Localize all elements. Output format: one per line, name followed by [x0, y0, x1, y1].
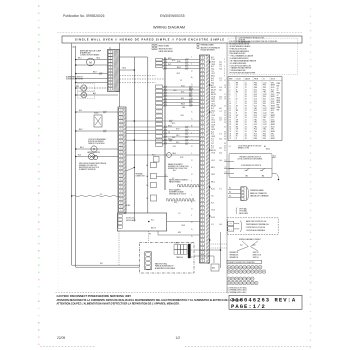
rail x147: [147, 57, 149, 213]
lamp 1 dashed enclosure: [78, 84, 95, 92]
svg-text:P8-6: P8-6: [254, 138, 257, 140]
svg-text:P1-3: P1-3: [254, 133, 257, 135]
svg-text:Y: Y: [236, 96, 237, 98]
svg-text:BK-4: BK-4: [97, 58, 101, 60]
svg-text:B-4: B-4: [220, 224, 222, 226]
svg-text:TO: TO: [263, 78, 265, 80]
wire y235: [158, 231, 200, 235]
svg-text:ELEMENTO SUPERIOR: ELEMENTO SUPERIOR: [79, 169, 96, 171]
svg-text:OR-2: OR-2: [176, 135, 180, 137]
svg-text:Publication No. 5995526026: Publication No. 5995526026: [63, 14, 105, 18]
svg-text:P8-6: P8-6: [254, 85, 257, 87]
svg-text:BK/W: BK/W: [271, 115, 275, 117]
svg-text:OR-8: OR-8: [172, 137, 176, 139]
wire table box: [228, 77, 282, 141]
dashed wires under P8: [120, 76, 166, 83]
svg-text:B-4: B-4: [220, 160, 222, 162]
connector J1 hatch: [206, 56, 209, 264]
svg-text:12: 12: [245, 87, 247, 89]
oven lamp 2: [76, 92, 118, 98]
svg-text:16: 16: [245, 94, 247, 96]
svg-text:SP-1: SP-1: [271, 133, 274, 135]
svg-text:P9-4: P9-4: [263, 136, 266, 138]
svg-text:BK/W: BK/W: [271, 85, 275, 87]
wire y73.5: [76, 72, 108, 75]
svg-text:Y: Y: [236, 103, 237, 105]
svg-text:W-19: W-19: [189, 101, 193, 103]
wire P8 to dot: [120, 69, 135, 71]
svg-text:16: 16: [245, 115, 247, 117]
svg-text:13: 13: [230, 110, 232, 112]
title bar right note: [239, 37, 265, 44]
svg-text:GY: GY: [236, 85, 238, 87]
svg-text:18: 18: [245, 85, 247, 87]
svg-text:BK-15: BK-15: [177, 67, 181, 69]
svg-text:OR: OR: [236, 119, 238, 121]
svg-text:K1-2: K1-2: [254, 124, 257, 126]
svg-text:B2: B2: [147, 198, 149, 200]
svg-text:MOTEUR DE VERROU: MOTEUR DE VERROU: [88, 141, 104, 143]
relay board top edge: [120, 56, 148, 58]
svg-text:18: 18: [245, 99, 247, 101]
svg-text:W-15: W-15: [271, 103, 275, 105]
svg-text:ATENCION:DESCONECTE LA CORRIEN: ATENCION:DESCONECTE LA CORRIENTE ANTES D…: [57, 299, 243, 302]
legend relay board: [152, 44, 173, 53]
svg-text:BK-22: BK-22: [189, 88, 193, 90]
svg-text:ELEMENTO DE CONVECCION: ELEMENTO DE CONVECCION: [168, 166, 188, 168]
wire door lock motor: [76, 148, 118, 150]
svg-text:BK-31: BK-31: [168, 125, 172, 127]
bake element note: [169, 179, 189, 184]
svg-text:24: 24: [230, 136, 232, 138]
wire P9 J1 y121: [126, 120, 200, 122]
svg-text:C-2: C-2: [220, 80, 223, 82]
svg-text:TB-2: TB-2: [263, 117, 266, 119]
svg-text:P1-3: P1-3: [254, 115, 257, 117]
oven lamp 1: [76, 85, 108, 91]
svg-text:BK-3: BK-3: [80, 147, 84, 149]
svg-text:22: 22: [230, 131, 232, 133]
rail junction dots: [71, 59, 77, 197]
svg-text:ELEMENT DE CONVECTION: ELEMENT DE CONVECTION: [168, 168, 187, 170]
svg-text:BK/W: BK/W: [271, 106, 275, 108]
svg-text:W-14: W-14: [181, 85, 185, 87]
svg-text:BK-7: BK-7: [178, 232, 181, 234]
svg-text:J1-12: J1-12: [263, 124, 267, 126]
svg-text:Y-6: Y-6: [211, 117, 213, 119]
svg-text:R-7: R-7: [211, 143, 214, 145]
svg-text:J1-12: J1-12: [263, 115, 267, 117]
svg-text:SWITCH: SWITCH: [253, 252, 259, 254]
svg-text:14: 14: [245, 101, 247, 103]
svg-text:DOOR+CONSTRUCTION ELEMENT: DOOR+CONSTRUCTION ELEMENT: [238, 159, 263, 161]
svg-text:F-1: F-1: [220, 134, 222, 136]
svg-text:15: 15: [230, 115, 232, 117]
svg-text:18: 18: [230, 122, 232, 124]
svg-text:P1-3: P1-3: [254, 136, 257, 138]
svg-text:J1-12: J1-12: [263, 122, 267, 124]
operating panel block: [228, 187, 269, 201]
svg-text:P8-6: P8-6: [254, 82, 257, 84]
svg-text:J2-4: J2-4: [254, 99, 257, 101]
svg-text:A-2: A-2: [73, 46, 76, 49]
converter row 4: [227, 281, 258, 284]
svg-text:14: 14: [245, 108, 247, 110]
svg-text:SWITCH: SWITCH: [253, 257, 259, 259]
bottom dashed border: [56, 292, 230, 294]
svg-text:BR-1: BR-1: [211, 92, 215, 94]
svg-text:CONNECTOR: CONNECTOR: [135, 176, 144, 178]
right divider: [226, 43, 228, 293]
svg-text:GY-8: GY-8: [211, 96, 215, 98]
svg-text:BK-10: BK-10: [266, 149, 270, 151]
svg-text:B-2: B-2: [211, 145, 214, 147]
svg-text:BK/W: BK/W: [271, 124, 275, 126]
svg-text:GY-8: GY-8: [211, 210, 215, 212]
wires power to right: [194, 250, 221, 263]
svg-text:K1-2: K1-2: [254, 110, 257, 112]
wire P9 J1 y140: [126, 139, 200, 141]
connector P8 pins: [108, 51, 112, 90]
svg-text:BK-25: BK-25: [181, 104, 185, 106]
svg-text:W-22: W-22: [211, 174, 215, 176]
cell chain lower: [156, 85, 163, 146]
color code legend border: [228, 38, 298, 74]
svg-text:GY-3: GY-3: [181, 91, 184, 93]
svg-text:18: 18: [245, 136, 247, 138]
bundle K3 wires: [163, 125, 200, 144]
svg-text:BK/W: BK/W: [271, 138, 275, 140]
svg-text:GY: GY: [236, 87, 238, 89]
svg-text:BK-1: BK-1: [78, 58, 82, 60]
extra col right of table: [277, 83, 281, 111]
svg-text:16: 16: [245, 133, 247, 135]
connector P9 outline: [118, 107, 126, 213]
svg-text:BK-19: BK-19: [211, 94, 215, 96]
svg-text:TB-2: TB-2: [263, 129, 266, 131]
svg-text:BR-1: BR-1: [211, 181, 215, 183]
svg-text:P1-3: P1-3: [254, 129, 257, 131]
svg-text:BR: BR: [236, 110, 238, 112]
svg-text:12: 12: [245, 119, 247, 121]
wire y78.5: [76, 78, 108, 80]
svg-text:20: 20: [230, 126, 232, 128]
power black bar: [188, 244, 191, 258]
svg-text:12: 12: [245, 82, 247, 84]
svg-text:R-21: R-21: [168, 64, 171, 66]
svg-text:GY-2: GY-2: [211, 103, 215, 105]
svg-text:OR-3: OR-3: [211, 136, 215, 138]
svg-text:P9-4: P9-4: [263, 85, 266, 87]
legend terminal board: [197, 43, 220, 51]
svg-text:16: 16: [245, 103, 247, 105]
svg-text:PAGE:1/2: PAGE:1/2: [231, 303, 266, 310]
wire table rows: [230, 82, 276, 140]
alarm note: [66, 76, 84, 81]
svg-text:P9-4: P9-4: [263, 133, 266, 135]
svg-text:GY-2: GY-2: [211, 73, 215, 75]
svg-text:Y-6: Y-6: [211, 196, 213, 198]
svg-text:K1-2: K1-2: [254, 94, 257, 96]
svg-text:L-2: L-2: [225, 167, 227, 169]
P8 right vertical wire: [119, 43, 121, 107]
svg-text:R-14: R-14: [211, 217, 214, 219]
svg-text:E-1: E-1: [165, 175, 167, 177]
svg-text:J1-12: J1-12: [263, 126, 267, 128]
svg-text:R-14: R-14: [211, 188, 214, 190]
svg-text:M: M: [93, 149, 95, 151]
dashed drop left of door unit: [118, 231, 120, 265]
svg-text:B-1: B-1: [229, 188, 231, 190]
bundle K2 wires: [163, 85, 200, 106]
svg-text:BK-19: BK-19: [211, 150, 215, 152]
svg-text:V-1: V-1: [211, 148, 213, 150]
conv fan motor: [87, 58, 95, 66]
svg-text:W/BK: W/BK: [277, 83, 281, 85]
svg-text:K1-2: K1-2: [254, 89, 257, 91]
svg-text:SP-1: SP-1: [271, 82, 274, 84]
door unit pins: [118, 215, 122, 229]
svg-text:R: R: [236, 89, 237, 91]
svg-text:COLOR CODE/CODIGO DE COLORES/C: COLOR CODE/CODIGO DE COLORES/CODE DE COU…: [229, 41, 278, 43]
svg-text:17: 17: [230, 119, 232, 121]
latch lamp: [76, 153, 118, 159]
svg-text:W-15: W-15: [271, 87, 275, 89]
svg-text:CONTROLES DU FOUR DE: CONTROLES DU FOUR DE: [246, 227, 265, 229]
svg-text:OR: OR: [236, 129, 238, 131]
svg-text:105C: 105C: [271, 99, 274, 101]
svg-text:WIRE: WIRE: [229, 78, 233, 80]
tb box 3: [147, 183, 157, 188]
terminal grid: [174, 245, 187, 255]
scattered field labels: [172, 60, 186, 234]
svg-text:W-15: W-15: [271, 126, 275, 128]
svg-text:12: 12: [245, 122, 247, 124]
svg-text:DIRECCION: DIRECCION: [253, 254, 261, 256]
svg-text:SONNERIE DEL HORNO: SONNERIE DEL HORNO: [66, 79, 84, 81]
wire table header: [228, 77, 282, 80]
connector P9 hatch: [123, 108, 125, 214]
J1 left tick labels: [191, 57, 193, 259]
svg-text:R: R: [236, 112, 237, 114]
svg-text:W-12: W-12: [180, 157, 184, 159]
svg-text:COLOR: COLOR: [236, 78, 241, 80]
svg-text:P9-4: P9-4: [263, 89, 266, 91]
svg-text:GY-8: GY-8: [211, 122, 215, 124]
svg-text:1/2: 1/2: [176, 336, 181, 340]
svg-text:105C: 105C: [271, 117, 274, 119]
svg-text:W-4: W-4: [211, 127, 214, 129]
svg-text:W-22: W-22: [211, 101, 215, 103]
wire conv fan top: [76, 59, 108, 61]
svg-text:R-22: R-22: [271, 110, 274, 112]
svg-text:P8-6: P8-6: [254, 87, 257, 89]
svg-text:NOTE: NOTE: [271, 78, 275, 80]
svg-text:TB BK: TB BK: [126, 205, 130, 207]
dashed stubs to bake box: [211, 244, 228, 248]
svg-text:B1: B1: [147, 185, 149, 187]
bake controls block: [227, 218, 278, 235]
svg-text:19: 19: [230, 124, 232, 126]
svg-text:W-4: W-4: [211, 68, 214, 70]
svg-text:18: 18: [245, 106, 247, 108]
svg-text:WIRING DIAGRAM: WIRING DIAGRAM: [153, 26, 185, 30]
svg-text:12: 12: [245, 92, 247, 94]
svg-text:BK: BK: [236, 92, 238, 94]
svg-text:W-17: W-17: [176, 129, 180, 131]
rail B: [76, 46, 140, 267]
door lock note: [88, 138, 106, 145]
svg-text:K1-2: K1-2: [254, 106, 257, 108]
svg-text:Y-6: Y-6: [211, 71, 213, 73]
main power dashed box: [140, 243, 195, 274]
svg-text:BK-7 N: BK-7 N: [151, 228, 156, 230]
svg-text:12: 12: [230, 108, 232, 110]
door lock unit box: [117, 213, 166, 231]
svg-text:BR-1: BR-1: [211, 167, 215, 169]
svg-text:105C: 105C: [271, 136, 274, 138]
svg-text:BK-11: BK-11: [168, 58, 172, 60]
svg-text:K3-1: K3-1: [263, 119, 266, 121]
svg-text:GY: GY: [277, 90, 279, 92]
connector P8 hatch: [114, 50, 119, 92]
checkbox notes: [228, 286, 248, 294]
svg-text:J2-4: J2-4: [254, 103, 257, 105]
converter row 3: [227, 277, 254, 280]
tb box 1: [147, 163, 157, 168]
svg-text:P-2: P-2: [211, 203, 214, 205]
svg-text:PR PURPLE/PURPURA/PURPRE: PR PURPLE/PURPURA/PURPRE: [230, 72, 257, 75]
power box text: [155, 263, 175, 270]
svg-text:B-2: B-2: [211, 66, 214, 68]
svg-text:R: R: [236, 108, 237, 110]
title bar box: [62, 36, 302, 43]
svg-text:R-8: R-8: [189, 94, 192, 96]
svg-text:P8-6: P8-6: [254, 112, 257, 114]
svg-text:22/09: 22/09: [57, 336, 65, 340]
title block box: [229, 295, 302, 309]
svg-text:E-3: E-3: [220, 87, 222, 89]
svg-text:18: 18: [245, 112, 247, 114]
svg-text:18: 18: [245, 138, 247, 140]
svg-text:B-2: B-2: [211, 78, 214, 80]
connector P8 outline: [108, 50, 120, 92]
svg-text:SINGLE WALL OVEN // HORNO DE P: SINGLE WALL OVEN // HORNO DE PARED SIMPL…: [75, 39, 225, 42]
wire table columns: [235, 77, 270, 141]
converter row 1: [227, 266, 262, 269]
color code legend: [229, 41, 278, 75]
connector J1 pins: [200, 56, 204, 262]
svg-text:BR-1: BR-1: [211, 75, 215, 77]
svg-text:J1-12: J1-12: [263, 82, 267, 84]
svg-text:K1-2: K1-2: [254, 92, 257, 94]
svg-text:B-2: B-2: [229, 192, 231, 194]
fan tree block: [229, 238, 261, 259]
svg-text:W-2: W-2: [151, 220, 154, 222]
svg-text:SP-1: SP-1: [271, 112, 274, 114]
svg-text:J2-4: J2-4: [254, 117, 257, 119]
lamp 2 dashed enclosure: [78, 92, 95, 99]
svg-text:11: 11: [230, 106, 232, 108]
svg-text:BK-12: BK-12: [211, 87, 215, 89]
svg-text:OR-3: OR-3: [211, 61, 215, 63]
svg-text:R: R: [236, 138, 237, 140]
svg-text:BK: BK: [236, 126, 238, 128]
svg-text:W/BK: W/BK: [277, 107, 281, 109]
perforation dots right: [310, 8, 312, 348]
svg-text:BK-19: BK-19: [211, 89, 215, 91]
wires P9 to chain: [126, 127, 156, 134]
svg-text:105C: 105C: [271, 101, 274, 103]
svg-text:J1-12: J1-12: [263, 110, 267, 112]
svg-text:A-3: A-3: [93, 92, 96, 95]
svg-text:CERROJO DEL HORNO: CERROJO DEL HORNO: [88, 143, 105, 145]
svg-text:12: 12: [245, 110, 247, 112]
bundle K1 wires: [163, 58, 200, 70]
svg-text:D-7: D-7: [220, 78, 223, 80]
svg-text:14: 14: [230, 112, 232, 114]
label E-1: [157, 175, 169, 177]
svg-text:16: 16: [245, 124, 247, 126]
svg-text:W-22: W-22: [211, 110, 215, 112]
svg-text:F-1: F-1: [220, 188, 222, 190]
small box on rail: [154, 157, 160, 163]
broil element symbol: [167, 199, 196, 201]
svg-text:Y-2: Y-2: [180, 80, 182, 82]
svg-text:Y-4: Y-4: [168, 132, 170, 134]
svg-text:T-3: T-3: [211, 113, 213, 115]
svg-text:W-4: W-4: [211, 82, 214, 84]
svg-text:P1-3: P1-3: [254, 96, 257, 98]
svg-text:P9-4: P9-4: [263, 87, 266, 89]
svg-text:23: 23: [230, 133, 232, 135]
svg-text:14: 14: [245, 126, 247, 128]
svg-text:W-1: W-1: [100, 263, 103, 265]
svg-text:P.1: P.1: [149, 234, 151, 236]
svg-text:W-3: W-3: [76, 86, 79, 88]
svg-text:BK-8: BK-8: [93, 72, 97, 74]
wire y82.5: [76, 82, 108, 84]
svg-text:GY-5: GY-5: [173, 90, 176, 92]
svg-text:TB-1: TB-1: [254, 126, 257, 128]
svg-text:Y: Y: [236, 101, 237, 103]
svg-text:DOOR LOCK: DOOR LOCK: [126, 217, 135, 219]
wire W-2: [76, 110, 118, 113]
svg-text:OR-8: OR-8: [181, 225, 185, 227]
svg-text:105C: 105C: [271, 94, 274, 96]
J1 pin labels right: [211, 57, 226, 226]
svg-text:21: 21: [230, 129, 232, 131]
svg-text:P9-4: P9-4: [263, 138, 266, 140]
svg-text:L-3: L-3: [225, 172, 227, 174]
power pin stack: [145, 252, 152, 270]
svg-text:R-16: R-16: [176, 142, 179, 144]
svg-text:GY-5: GY-5: [173, 146, 176, 148]
svg-text:K1-2: K1-2: [254, 101, 257, 103]
svg-text:GY: GY: [236, 131, 238, 133]
svg-text:14: 14: [245, 117, 247, 119]
svg-text:K3-1: K3-1: [263, 131, 266, 133]
svg-text:25: 25: [230, 138, 232, 140]
svg-text:SP-1: SP-1: [271, 92, 274, 94]
svg-text:J1-12: J1-12: [263, 112, 267, 114]
svg-text:Y-2: Y-2: [172, 178, 174, 180]
tb box 4: [147, 195, 157, 201]
svg-text:OR-3: OR-3: [211, 64, 215, 66]
svg-text:C-2: C-2: [220, 110, 223, 112]
svg-text:Y-2: Y-2: [174, 191, 176, 193]
svg-text:B-4: B-4: [220, 96, 222, 98]
